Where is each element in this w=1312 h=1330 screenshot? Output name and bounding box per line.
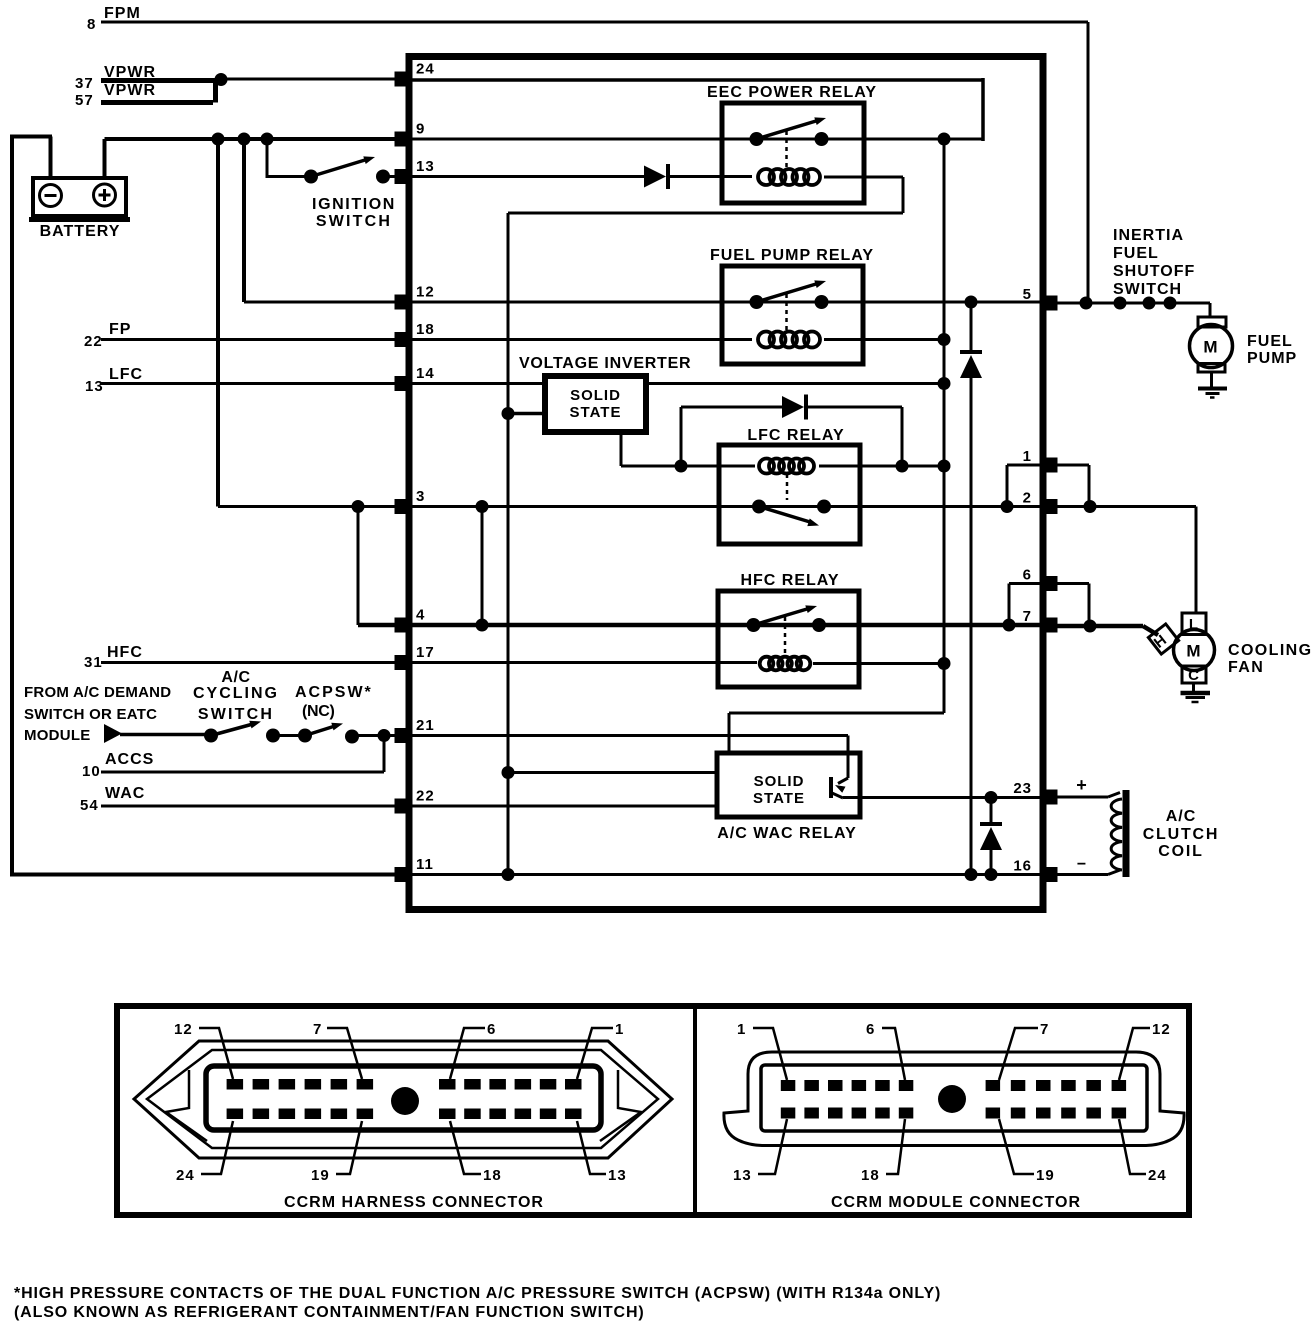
svg-text:17: 17 — [416, 644, 435, 661]
wire LFC relay actuator dashed — [786, 474, 789, 500]
wire ACCS riser — [383, 736, 386, 773]
wire EEC coil out — [824, 176, 903, 179]
connector J1 CCRM HARNESS CONNECTOR — [134, 1041, 672, 1158]
wire FP relay actuator dashed — [785, 294, 788, 330]
svg-text:ACCS: ACCS — [105, 751, 154, 768]
pin 14 (CCRM left) — [395, 376, 412, 391]
wire inverter out to x944 — [646, 382, 944, 385]
svg-text:(ALSO KNOWN AS REFRIGERANT CON: (ALSO KNOWN AS REFRIGERANT CONTAINMENT/F… — [14, 1304, 645, 1321]
clutch coil core plate — [1123, 790, 1130, 877]
module pin field — [781, 1080, 796, 1091]
svg-text:24: 24 — [416, 61, 435, 78]
panel divider — [693, 1006, 697, 1215]
terminal L box — [1182, 613, 1206, 635]
svg-text:24: 24 — [176, 1167, 195, 1184]
harness center key — [391, 1087, 419, 1115]
wire pin 12 feed — [244, 301, 405, 304]
ground cooling fan — [1181, 691, 1211, 696]
pin 5 (CCRM right) — [1041, 296, 1058, 311]
svg-text:13: 13 — [85, 378, 104, 395]
svg-text:1: 1 — [737, 1021, 746, 1038]
wire EEC loop riser — [981, 78, 985, 141]
svg-text:18: 18 — [416, 321, 435, 338]
wire pin 18 line to FP coil — [412, 338, 752, 341]
wire FPM vertical down to pin5 line — [1087, 22, 1090, 303]
node FP coil junction — [938, 333, 951, 346]
switch A/C cycling switch — [204, 729, 218, 743]
pin 23 (CCRM right) — [1041, 790, 1058, 805]
svg-text:12: 12 — [174, 1021, 193, 1038]
svg-text:PUMP: PUMP — [1247, 350, 1297, 367]
wire ground line pin 11 to pin 16 — [412, 873, 1041, 876]
wire VPWR 37 thick — [101, 78, 215, 83]
svg-text:4: 4 — [416, 607, 425, 624]
wire x508 to WAC input — [508, 771, 717, 774]
wire diode branch lower — [970, 378, 973, 875]
svg-text:FUEL PUMP RELAY: FUEL PUMP RELAY — [710, 247, 874, 264]
wire pin 23 to clutch coil — [1052, 796, 1108, 799]
svg-text:STATE: STATE — [570, 404, 622, 421]
module connector body — [761, 1065, 1147, 1131]
wire pin 22 line to WAC — [412, 805, 717, 808]
wire battery positive bus to pin 9 — [105, 137, 406, 141]
harness connector body — [206, 1066, 601, 1130]
wire WAC output to pin 23 — [843, 796, 1041, 799]
node ACCS junction — [378, 729, 391, 742]
inductor LFC relay coil — [759, 459, 774, 474]
svg-text:31: 31 — [84, 654, 103, 671]
svg-text:SOLID: SOLID — [754, 773, 805, 790]
wire EEC coil loop left — [508, 212, 903, 215]
wire battery negative to pin 11 — [10, 873, 397, 877]
wire pin 3 line through LFC switch to pin 2 — [412, 505, 1041, 508]
inductor FP relay coil — [758, 332, 774, 348]
svg-text:7: 7 — [1023, 608, 1032, 625]
svg-text:WAC: WAC — [105, 785, 145, 802]
wire battery negative up — [49, 137, 53, 179]
wire pin 6 inner bracket — [1009, 582, 1041, 585]
wire FP coil out to x944 — [824, 338, 944, 341]
wire pin 9 line through EEC switch — [412, 138, 983, 141]
node pin1/2 inner junction — [1001, 500, 1014, 513]
pin 18 (CCRM left) — [395, 332, 412, 347]
wire pin 21 line to transistor — [412, 734, 848, 737]
svg-text:FP: FP — [109, 321, 131, 338]
node pin3 inner junction — [476, 500, 489, 513]
svg-text:10: 10 — [82, 763, 101, 780]
wire down to fuel pump motor — [1209, 303, 1212, 318]
wire LFC coil out — [819, 465, 944, 468]
connector J2 CCRM MODULE CONNECTOR — [724, 1052, 1184, 1146]
svg-text:−: − — [1077, 856, 1087, 873]
wire pin 2 line to fan — [1046, 505, 1196, 508]
svg-text:LFC RELAY: LFC RELAY — [747, 427, 844, 444]
wire branch pin3 to pin4 — [357, 507, 360, 626]
pin 12 (CCRM left) — [395, 295, 412, 310]
node pin7 outer junction — [1084, 620, 1097, 633]
wire into WAC solid state top — [728, 713, 731, 755]
wire FP to pin 18 — [101, 338, 405, 341]
wire vertical x944 — [943, 139, 946, 713]
wire battery negative left — [12, 135, 52, 139]
svg-text:SHUTOFF: SHUTOFF — [1113, 263, 1195, 280]
node pin6/7 inner junction — [1003, 619, 1016, 632]
switch EEC relay contacts — [750, 132, 764, 146]
node bus junction B — [238, 133, 251, 146]
switch LFC relay contacts — [752, 500, 766, 514]
node LFC coil junction — [938, 460, 951, 473]
svg-text:12: 12 — [1152, 1021, 1171, 1038]
svg-text:8: 8 — [87, 16, 96, 33]
pin 6 (CCRM right) — [1041, 576, 1058, 591]
node pin3 branch junction — [352, 500, 365, 513]
svg-text:19: 19 — [1036, 1167, 1055, 1184]
wire VPWR to pin 24 — [221, 78, 403, 81]
svg-text:CYCLING: CYCLING — [193, 685, 279, 702]
pin 1 (CCRM right) — [1041, 458, 1058, 473]
wire x944 to WAC top — [729, 712, 944, 715]
wire HFC coil out — [813, 662, 944, 665]
wire FPM horizontal — [101, 21, 1088, 24]
relay K5 A/C WAC RELAY solid state — [717, 753, 860, 817]
svg-text:INERTIA: INERTIA — [1113, 227, 1184, 244]
wire inverter output right — [621, 465, 681, 468]
diode CR3 in LFC loop — [782, 396, 804, 418]
svg-text:22: 22 — [416, 788, 435, 805]
ground fuel pump — [1198, 387, 1227, 391]
wire diagonal into H terminal — [1143, 626, 1158, 635]
svg-text:A/C: A/C — [1166, 808, 1197, 825]
switch ignition — [304, 170, 318, 184]
svg-text:6: 6 — [1023, 567, 1032, 584]
svg-text:11: 11 — [416, 856, 434, 873]
wire battery negative down left side — [10, 135, 14, 877]
wire pin 24 line — [412, 78, 983, 82]
svg-text:22: 22 — [84, 333, 103, 350]
svg-text:CCRM MODULE CONNECTOR: CCRM MODULE CONNECTOR — [831, 1194, 1081, 1211]
node diode bottom junction — [985, 868, 998, 881]
svg-text:M: M — [1203, 338, 1218, 357]
wire pin 13 line to diode — [412, 175, 644, 178]
pin 2 (CCRM right) — [1041, 499, 1058, 514]
svg-text:*HIGH PRESSURE CONTACTS OF THE: *HIGH PRESSURE CONTACTS OF THE DUAL FUNC… — [14, 1285, 941, 1302]
svg-text:13: 13 — [416, 158, 435, 175]
node bus junction C — [261, 133, 274, 146]
wire pin 5 to fuel pump — [1046, 302, 1210, 305]
pin 13 (CCRM left) — [395, 169, 412, 184]
svg-text:2: 2 — [1023, 490, 1032, 507]
diode CR1 on pin 13 line — [644, 166, 666, 188]
svg-text:FUEL: FUEL — [1247, 333, 1293, 350]
svg-text:FUEL: FUEL — [1113, 245, 1159, 262]
wire pin 7 line to fan — [1046, 624, 1143, 629]
node FPM junction — [1080, 297, 1093, 310]
switch inertia fuel shutoff — [1114, 297, 1127, 310]
wire battery positive up — [103, 139, 107, 178]
node pin14 junction — [938, 377, 951, 390]
svg-text:24: 24 — [1148, 1167, 1167, 1184]
wire long vertical x508 — [507, 213, 510, 875]
svg-text:+: + — [1076, 775, 1088, 795]
wire WAC to pin 22 — [101, 805, 405, 808]
svg-text:MODULE: MODULE — [24, 727, 91, 744]
wire pin 12 line through FP switch to pin 5 — [412, 301, 1041, 304]
wire pin 14 into inverter — [412, 382, 545, 385]
svg-text:13: 13 — [733, 1167, 752, 1184]
wire branch to ignition switch — [266, 139, 269, 178]
node HFC coil junction — [938, 657, 951, 670]
svg-text:COOLING: COOLING — [1228, 642, 1312, 659]
terminal C box — [1182, 666, 1206, 683]
svg-text:VPWR: VPWR — [104, 82, 156, 99]
diode CR2 flyback — [960, 350, 982, 354]
wire pin 17 line to HFC coil — [412, 661, 757, 664]
svg-text:19: 19 — [311, 1167, 330, 1184]
wire pin 3 feed horizontal — [218, 505, 405, 508]
node WAC input junction — [502, 766, 515, 779]
svg-text:A/C: A/C — [221, 669, 250, 686]
svg-text:14: 14 — [416, 365, 435, 382]
svg-text:FROM A/C DEMAND: FROM A/C DEMAND — [24, 684, 171, 701]
pin 11 (CCRM left) — [395, 867, 412, 882]
switch ACPSW (NC) — [298, 729, 312, 743]
svg-text:HFC RELAY: HFC RELAY — [740, 572, 839, 589]
switch FP relay contacts — [750, 295, 764, 309]
svg-text:57: 57 — [75, 92, 94, 109]
svg-text:COIL: COIL — [1158, 843, 1203, 860]
svg-text:54: 54 — [80, 797, 99, 814]
inductor EEC relay coil — [758, 169, 774, 185]
svg-text:3: 3 — [416, 488, 425, 505]
wire VPWR 57 riser — [213, 78, 218, 103]
wire pin 16 to clutch coil — [1052, 873, 1108, 876]
node EEC switch output junction — [938, 133, 951, 146]
node ground x971 junction — [965, 868, 978, 881]
svg-text:ACPSW*: ACPSW* — [295, 684, 373, 701]
svg-text:SWITCH: SWITCH — [316, 213, 392, 230]
svg-text:18: 18 — [861, 1167, 880, 1184]
node VPWR junction — [215, 73, 228, 86]
wire EEC coil loop down — [902, 177, 905, 213]
pin 4 (CCRM left) — [395, 618, 412, 633]
svg-text:FPM: FPM — [104, 5, 141, 22]
node diode top junction — [985, 791, 998, 804]
wire to pin 4 — [358, 623, 403, 628]
wire A/C demand input arrow — [104, 724, 122, 743]
svg-text:37: 37 — [75, 75, 94, 92]
harness pin field — [227, 1079, 244, 1090]
battery B+ — [33, 178, 126, 216]
svg-text:BATTERY: BATTERY — [40, 223, 121, 240]
svg-text:VOLTAGE INVERTER: VOLTAGE INVERTER — [519, 355, 691, 372]
svg-text:1: 1 — [1023, 448, 1032, 465]
motor M1 FUEL PUMP — [1198, 317, 1226, 327]
node pin2 outer junction — [1084, 500, 1097, 513]
wire diode to EEC coil — [668, 175, 752, 178]
node pin12/diode junction — [965, 296, 978, 309]
svg-text:23: 23 — [1013, 780, 1032, 797]
svg-text:M: M — [1186, 642, 1201, 661]
svg-text:5: 5 — [1023, 286, 1032, 303]
svg-text:SWITCH OR EATC: SWITCH OR EATC — [24, 706, 157, 723]
pin 7 (CCRM right) — [1041, 618, 1058, 633]
svg-text:C: C — [1188, 667, 1200, 684]
svg-text:21: 21 — [416, 717, 435, 734]
svg-text:9: 9 — [416, 121, 425, 138]
svg-text:FAN: FAN — [1228, 659, 1264, 676]
wire ACCS horizontal — [101, 771, 384, 774]
svg-text:(NC): (NC) — [302, 703, 335, 720]
wire to LFC coil — [681, 465, 755, 468]
inductor HFC relay coil — [760, 657, 774, 671]
switch HFC relay contacts — [747, 618, 761, 632]
wire pin 1 outer bracket — [1057, 464, 1089, 467]
harness latch hook right — [600, 1070, 641, 1141]
transistor Q1 in WAC relay — [838, 778, 848, 784]
svg-text:EEC POWER RELAY: EEC POWER RELAY — [707, 84, 877, 101]
node bus junction A — [212, 133, 225, 146]
inductor A/C clutch coil — [1111, 799, 1122, 870]
svg-text:7: 7 — [1040, 1021, 1049, 1038]
svg-text:A/C WAC RELAY: A/C WAC RELAY — [717, 825, 857, 842]
pin 21 (CCRM left) — [395, 728, 412, 743]
node pin4 inner junction — [476, 619, 489, 632]
wire fan L feed down — [1195, 507, 1198, 614]
pin 3 (CCRM left) — [395, 499, 412, 514]
svg-text:1: 1 — [615, 1021, 624, 1038]
svg-text:13: 13 — [608, 1167, 627, 1184]
pin 24 (CCRM left) — [395, 72, 412, 87]
svg-text:7: 7 — [313, 1021, 322, 1038]
module center key — [938, 1085, 966, 1113]
wire pin 21 drop — [847, 736, 850, 779]
wire LFC to pin 14 — [101, 382, 405, 385]
svg-text:CCRM HARNESS CONNECTOR: CCRM HARNESS CONNECTOR — [284, 1194, 544, 1211]
svg-text:6: 6 — [487, 1021, 496, 1038]
wire to ignition switch contact — [267, 175, 311, 178]
CCRM module outline — [409, 57, 1043, 910]
pin 9 (CCRM left) — [395, 132, 412, 147]
svg-text:LFC: LFC — [109, 366, 143, 383]
svg-text:HFC: HFC — [107, 644, 143, 661]
wire pin 1 inner bracket — [1007, 464, 1041, 467]
wire diode branch upper — [970, 302, 973, 352]
wire pin 6 outer bracket — [1057, 582, 1089, 585]
wire branch to pin 3 line — [216, 139, 220, 507]
svg-text:18: 18 — [483, 1167, 502, 1184]
svg-text:12: 12 — [416, 284, 435, 301]
svg-text:6: 6 — [866, 1021, 875, 1038]
pin 17 (CCRM left) — [395, 655, 412, 670]
wire HFC to pin 17 — [101, 661, 405, 664]
wire HFC relay actuator dashed — [784, 617, 787, 653]
wire LFC diode loop — [680, 407, 683, 466]
wire VPWR 57 thick — [101, 100, 213, 105]
node ground x508 junction — [502, 868, 515, 881]
svg-text:SWITCH: SWITCH — [1113, 281, 1182, 298]
node inverter input junction — [502, 407, 515, 420]
wire inverter output down — [620, 432, 623, 466]
svg-text:16: 16 — [1013, 858, 1032, 875]
svg-text:SWITCH: SWITCH — [198, 706, 274, 723]
pin 16 (CCRM right) — [1041, 867, 1058, 882]
wire x508 to inverter — [508, 412, 545, 416]
wire EEC relay actuator dashed — [785, 131, 788, 167]
wire branch to pin 12 line — [242, 139, 246, 302]
svg-text:IGNITION: IGNITION — [312, 196, 396, 213]
pin 22 (CCRM left) — [395, 799, 412, 814]
harness latch hook left — [166, 1070, 207, 1141]
wire pin3-pin4 inner link — [481, 507, 484, 626]
connector panel frame — [117, 1006, 1189, 1215]
svg-text:STATE: STATE — [753, 790, 805, 807]
svg-text:CLUTCH: CLUTCH — [1143, 826, 1220, 843]
svg-text:SOLID: SOLID — [570, 387, 621, 404]
node LFC coil input junction — [675, 460, 688, 473]
wire pin 4 line through HFC switch to pin 7 — [412, 623, 1041, 628]
node LFC loop junction — [896, 460, 909, 473]
